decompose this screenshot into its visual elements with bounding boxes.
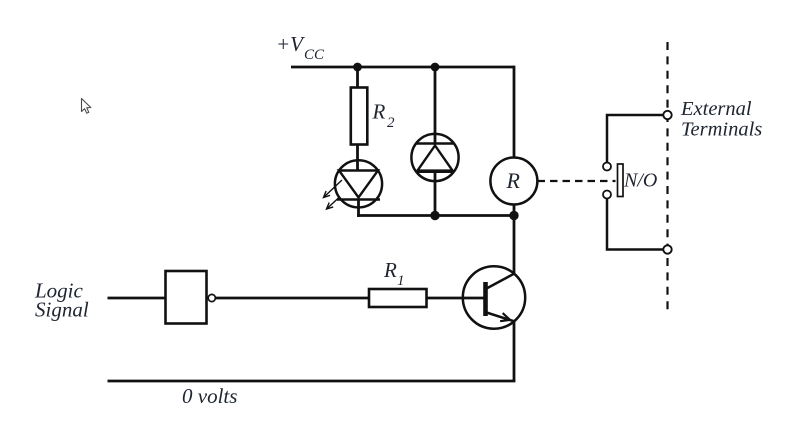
node junction rail/R2	[353, 63, 362, 72]
svg-text:R: R	[383, 258, 397, 282]
node junction diode/bottom rail	[430, 211, 439, 220]
wire diode to bottom node	[434, 172, 437, 216]
wire contact top to terminal	[607, 115, 664, 163]
wire contact bottom to terminal	[607, 199, 664, 250]
resistor R2	[351, 88, 368, 145]
wire rail to relay coil	[513, 66, 516, 158]
svg-text:CC: CC	[304, 47, 325, 63]
wire 0 volts rail	[108, 380, 516, 383]
mouse cursor	[82, 99, 91, 114]
svg-text:1: 1	[397, 273, 405, 289]
wire top +Vcc rail	[291, 66, 514, 69]
node junction rail/diode	[431, 63, 440, 72]
wire LED to bottom node	[357, 200, 360, 217]
wire R1 to base	[427, 297, 486, 300]
svg-text:Terminals: Terminals	[681, 119, 762, 141]
wire relay to collector node	[513, 205, 516, 216]
wire emitter to 0V rail	[513, 322, 516, 382]
svg-text:0 volts: 0 volts	[182, 384, 237, 408]
wire gate output to R1	[215, 297, 369, 300]
inverter bubble	[208, 294, 215, 301]
wire rail to diode	[434, 67, 437, 144]
terminal bottom	[663, 245, 671, 253]
svg-text:+V: +V	[276, 32, 305, 56]
dashed boundary line	[666, 42, 668, 310]
svg-text:R: R	[372, 100, 386, 124]
wire R2 to LED	[356, 145, 359, 172]
relay coil R	[490, 158, 537, 205]
wire logic input	[108, 297, 167, 300]
contact bar N/O	[618, 164, 624, 197]
LED arrows	[324, 180, 343, 209]
svg-text:External: External	[680, 98, 752, 120]
contact pole top	[603, 163, 611, 171]
wire rail to R2	[356, 67, 359, 88]
transistor Q1	[463, 266, 525, 328]
terminal top	[663, 111, 671, 119]
svg-text:2: 2	[387, 115, 395, 131]
wire bottom connecting rail	[357, 214, 514, 217]
contact pole bottom	[603, 191, 611, 199]
svg-text:R: R	[506, 168, 521, 193]
node junction relay/collector	[509, 211, 518, 220]
resistor R1	[369, 289, 427, 307]
LED D1	[335, 160, 382, 207]
wire collector	[513, 216, 516, 274]
svg-text:N/O: N/O	[623, 170, 657, 192]
buffer gate U1	[166, 271, 207, 324]
dashed mechanical link relay to contact	[538, 180, 616, 182]
svg-text:Signal: Signal	[35, 298, 89, 322]
diode D2	[411, 134, 458, 181]
